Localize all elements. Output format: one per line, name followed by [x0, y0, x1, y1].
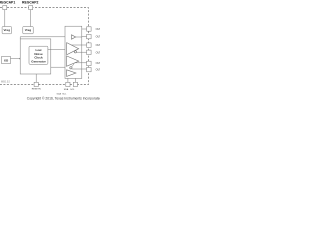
svg-text:RESETN: RESETN	[32, 88, 41, 90]
bubble T4	[70, 67, 72, 69]
buffer T2 (differential)	[67, 43, 79, 55]
pin REGCAP1	[3, 6, 7, 10]
wire T2 output N	[77, 51, 87, 53]
pin OUT0P	[87, 27, 92, 31]
svg-text:MB102: MB102	[1, 80, 10, 83]
svg-text:OUT1N: OUT1N	[96, 51, 100, 54]
wire to buffer T1 input	[20, 37, 71, 39]
wire REGCAP1 to Vreg1	[4, 10, 6, 27]
wire T3 output N diagonal	[72, 64, 75, 67]
pin OUT1N	[87, 50, 92, 54]
regulator Vreg1	[2, 27, 11, 34]
buffer T1 (small)	[72, 35, 76, 39]
wire pin OUT0N stub	[82, 36, 87, 38]
pin OUT0N	[87, 34, 92, 38]
pin OUT2P	[87, 61, 92, 65]
svg-text:REGCAP1: REGCAP1	[0, 1, 15, 5]
buffer T3	[67, 56, 79, 66]
chip boundary (dashed)	[0, 8, 89, 85]
wire XO to clock generator	[11, 58, 21, 60]
wire T4 output	[72, 68, 87, 70]
bubble T2 N	[74, 51, 76, 53]
wire T3 output	[75, 62, 87, 64]
svg-text:Vreg: Vreg	[4, 28, 11, 32]
wire buffer block to bottom pin SDA	[67, 78, 69, 82]
svg-text:OUT2N: OUT2N	[96, 68, 100, 71]
wire T2 output P	[71, 44, 86, 46]
svg-text:SDA: SDA	[64, 88, 69, 91]
pin OUT1P	[87, 43, 92, 47]
pin OUT2N	[87, 67, 92, 71]
wire clockgen to buffer T2	[48, 48, 67, 50]
svg-text:Generator: Generator	[31, 59, 46, 63]
svg-text:OUT1P: OUT1P	[96, 44, 100, 47]
svg-text:SDA SCL: SDA SCL	[57, 92, 68, 95]
bottom pin SCL	[73, 82, 77, 86]
svg-text:OUT0P: OUT0P	[96, 28, 100, 31]
wire REGCAP2 to Vreg2	[30, 10, 32, 27]
pin REGCAP2	[29, 6, 33, 10]
svg-text:Copyright © 2016, Texas Instru: Copyright © 2016, Texas Instruments Inco…	[27, 96, 100, 100]
oscillator XO	[2, 57, 11, 64]
output buffer block	[65, 26, 82, 78]
bottom pin RESETN	[34, 82, 38, 86]
wire clockgen to bottom pin	[35, 74, 37, 82]
wire T1 output	[76, 36, 82, 38]
regulator Vreg2	[23, 27, 33, 34]
clock generator block U1	[20, 39, 51, 74]
wire clockgen to buffers T3 T4	[51, 66, 65, 68]
inner box Low Noise Clock Generator	[29, 46, 48, 64]
svg-text:OUT2P: OUT2P	[96, 62, 100, 65]
wire pin OUT0P stub	[82, 28, 87, 30]
svg-text:REGCAP2: REGCAP2	[22, 1, 39, 5]
buffer T4	[67, 70, 76, 77]
svg-text:Vreg: Vreg	[25, 28, 32, 32]
svg-text:OUT0N: OUT0N	[96, 36, 100, 39]
junction dot	[19, 58, 21, 60]
svg-text:XO: XO	[4, 58, 9, 62]
wire buffer block to bottom pin SCL	[74, 78, 76, 82]
bottom pin SDA	[66, 82, 70, 86]
